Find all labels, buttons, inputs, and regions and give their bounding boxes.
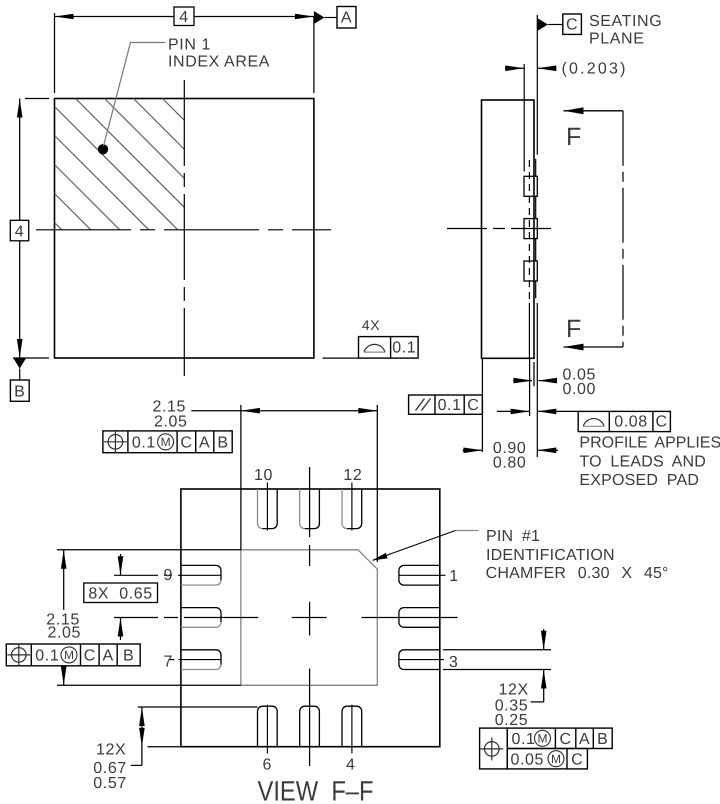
svg-text:IDENTIFICATION: IDENTIFICATION — [486, 547, 615, 564]
side view body outline — [482, 100, 535, 358]
svg-text:C: C — [571, 752, 583, 769]
pin1 chamfer leader — [456, 530, 479, 532]
datum C triangle — [537, 18, 548, 31]
dim 0.203 right arrow — [537, 67, 552, 69]
svg-text:SEATING: SEATING — [589, 13, 662, 30]
terminal centerlines bottom — [266, 705, 268, 754]
terminal position tolerance frame — [480, 728, 508, 769]
4X profile frame — [359, 337, 419, 359]
side view terminal step lines — [535, 159, 537, 177]
datum C box — [563, 14, 582, 34]
pad width extension right — [376, 405, 378, 562]
side view hidden line — [528, 160, 530, 300]
section F-F bottom arrow — [564, 346, 624, 348]
8X 0.65 box — [84, 583, 158, 603]
side view lead 3 — [524, 261, 537, 281]
terminal width arrow up — [543, 670, 545, 702]
svg-text:12: 12 — [343, 467, 362, 484]
svg-text:PLANE: PLANE — [589, 31, 644, 48]
side view horizontal centerline — [447, 228, 557, 230]
parallelism frame — [409, 395, 483, 414]
top dim 4 box — [174, 7, 194, 26]
pad height dim line upper — [63, 550, 65, 610]
datum A triangle — [314, 11, 325, 24]
terminal centerlines left — [114, 574, 158, 576]
bottom view horizontal centerline — [114, 617, 158, 619]
svg-text:0.25: 0.25 — [495, 712, 529, 729]
pitch dim lower arrow — [120, 618, 122, 641]
lead tip arrows row — [497, 410, 530, 412]
section F-F top arrow — [564, 110, 624, 112]
svg-text:0.00: 0.00 — [563, 381, 597, 398]
svg-text:INDEX AREA: INDEX AREA — [168, 54, 270, 71]
top dim extension line right — [313, 17, 315, 94]
profile frame leader — [537, 410, 578, 412]
svg-text:VIEW F–F: VIEW F–F — [258, 776, 374, 804]
svg-text:0.80: 0.80 — [493, 454, 527, 471]
svg-text:7: 7 — [164, 654, 174, 671]
top dim arrow right — [295, 14, 314, 20]
svg-text:4X: 4X — [362, 317, 380, 333]
svg-text:A: A — [199, 434, 210, 451]
top view horizontal centerline — [36, 229, 331, 231]
terminal width extension bottom — [443, 669, 551, 671]
svg-text:M: M — [538, 732, 548, 746]
svg-text:C: C — [180, 434, 192, 451]
svg-text:3: 3 — [449, 654, 459, 671]
pitch dim upper arrow — [120, 554, 122, 575]
terminal length extension top — [138, 706, 258, 708]
left dim arrow up — [17, 99, 23, 118]
svg-text:4: 4 — [179, 9, 189, 26]
datum C leader — [548, 24, 563, 26]
terminal length dim line — [141, 707, 143, 765]
4X frame attach line — [323, 357, 359, 359]
datum B leader — [19, 369, 21, 381]
pad height extension bottom — [57, 684, 241, 686]
left dim arrow down — [17, 339, 23, 358]
svg-text:12X: 12X — [499, 682, 529, 699]
bottom view package outline — [181, 489, 440, 747]
svg-text:6: 6 — [263, 757, 273, 774]
svg-text:(0.203): (0.203) — [562, 61, 628, 78]
pin 1 leader line — [104, 43, 166, 147]
svg-text:C: C — [656, 414, 668, 431]
left dim extension line bottom — [13, 357, 49, 359]
svg-text:F: F — [566, 315, 582, 343]
side view lead plane line lower — [528, 303, 530, 358]
svg-text:M: M — [64, 648, 74, 662]
top terminals 10-12 — [263, 489, 278, 529]
side view lead 1 — [524, 176, 537, 196]
right terminals 1-3 — [399, 565, 440, 585]
seating plane line — [536, 15, 538, 155]
pad height position tolerance frame — [6, 644, 140, 666]
svg-text:PROFILE APPLIES: PROFILE APPLIES — [579, 435, 720, 452]
top view vertical centerline — [183, 80, 185, 376]
svg-text:M: M — [161, 435, 171, 449]
datum B triangle — [13, 358, 26, 369]
pad height dim line lower — [63, 666, 65, 685]
bottom view vertical centerline — [309, 467, 311, 537]
svg-text:4: 4 — [15, 224, 25, 241]
svg-text:C: C — [566, 17, 578, 34]
svg-text:0.1: 0.1 — [35, 648, 59, 665]
pin 1 index dot — [98, 144, 108, 154]
svg-text:0.1: 0.1 — [438, 397, 462, 414]
dim 0.203 left arrow — [505, 67, 524, 69]
datum B box — [10, 380, 29, 401]
terminal centerlines top — [266, 483, 268, 531]
datum A leader — [324, 17, 337, 19]
svg-text:F: F — [566, 123, 582, 151]
pad width dim line — [191, 410, 377, 412]
svg-text:C: C — [560, 731, 572, 748]
pad width arrows — [241, 408, 260, 414]
svg-text:A: A — [579, 731, 590, 748]
pad height extension top — [57, 549, 241, 551]
profile tolerance frame — [578, 411, 670, 431]
bottom terminals 4-6 — [258, 706, 278, 747]
pad width extension left — [240, 405, 242, 550]
svg-text:0.08: 0.08 — [614, 414, 648, 431]
pin 1 index area hatch — [55, 99, 185, 230]
exposed pad outline with pin1 chamfer — [241, 550, 377, 686]
svg-text:A: A — [102, 648, 113, 665]
side view lead 2 — [524, 219, 537, 239]
left dim line lower — [19, 241, 21, 358]
top view package outline square — [55, 99, 314, 359]
standoff max line — [533, 362, 535, 386]
section F-F cutting line — [622, 111, 624, 347]
dim 0.05 arrows — [513, 380, 532, 382]
svg-text:A: A — [341, 10, 352, 27]
svg-text:B: B — [217, 434, 228, 451]
top dim extension line left — [54, 13, 56, 93]
svg-text:0.05: 0.05 — [511, 752, 545, 769]
svg-text:0.1: 0.1 — [132, 434, 156, 451]
svg-text:0.1: 0.1 — [392, 340, 416, 357]
svg-text:C: C — [84, 648, 96, 665]
svg-text:2.05: 2.05 — [48, 624, 82, 641]
terminal width arrow down — [543, 629, 545, 650]
svg-text:9: 9 — [164, 567, 174, 584]
svg-text:EXPOSED PAD: EXPOSED PAD — [579, 472, 699, 489]
svg-text:PIN 1: PIN 1 — [168, 37, 211, 54]
svg-text:8X 0.65: 8X 0.65 — [88, 586, 152, 603]
left dim extension line top — [25, 98, 49, 100]
dim 0.90 arrows — [463, 449, 483, 451]
terminal length extension bottom — [148, 746, 181, 748]
left terminals 7-9 — [181, 565, 221, 580]
svg-text:CHAMFER 0.30 X 45°: CHAMFER 0.30 X 45° — [486, 565, 669, 582]
svg-text:C: C — [467, 397, 479, 414]
side view lead plane line — [523, 64, 525, 172]
left dim 4 box — [10, 220, 28, 241]
svg-text:B: B — [123, 648, 134, 665]
left dim line upper — [19, 99, 21, 221]
svg-text:4: 4 — [346, 757, 356, 774]
pad width position tolerance frame — [103, 431, 232, 453]
body edge extension line — [481, 358, 483, 452]
top dim arrow left — [55, 14, 74, 20]
svg-text:PIN #1: PIN #1 — [486, 528, 540, 545]
top dimension line 4 — [55, 16, 314, 18]
terminal width extension top — [443, 649, 551, 651]
terminal centerlines right — [399, 574, 446, 576]
svg-text:B: B — [14, 384, 25, 401]
svg-text:12X: 12X — [96, 742, 126, 759]
svg-text:M: M — [551, 752, 561, 766]
svg-text:10: 10 — [254, 467, 273, 484]
svg-text:TO LEADS AND: TO LEADS AND — [579, 453, 706, 470]
svg-text:B: B — [597, 731, 608, 748]
svg-text:0.57: 0.57 — [93, 775, 127, 792]
datum A box — [337, 7, 356, 29]
svg-text:1: 1 — [449, 568, 459, 585]
svg-text:2.05: 2.05 — [154, 414, 188, 431]
svg-text:0.1: 0.1 — [512, 731, 536, 748]
